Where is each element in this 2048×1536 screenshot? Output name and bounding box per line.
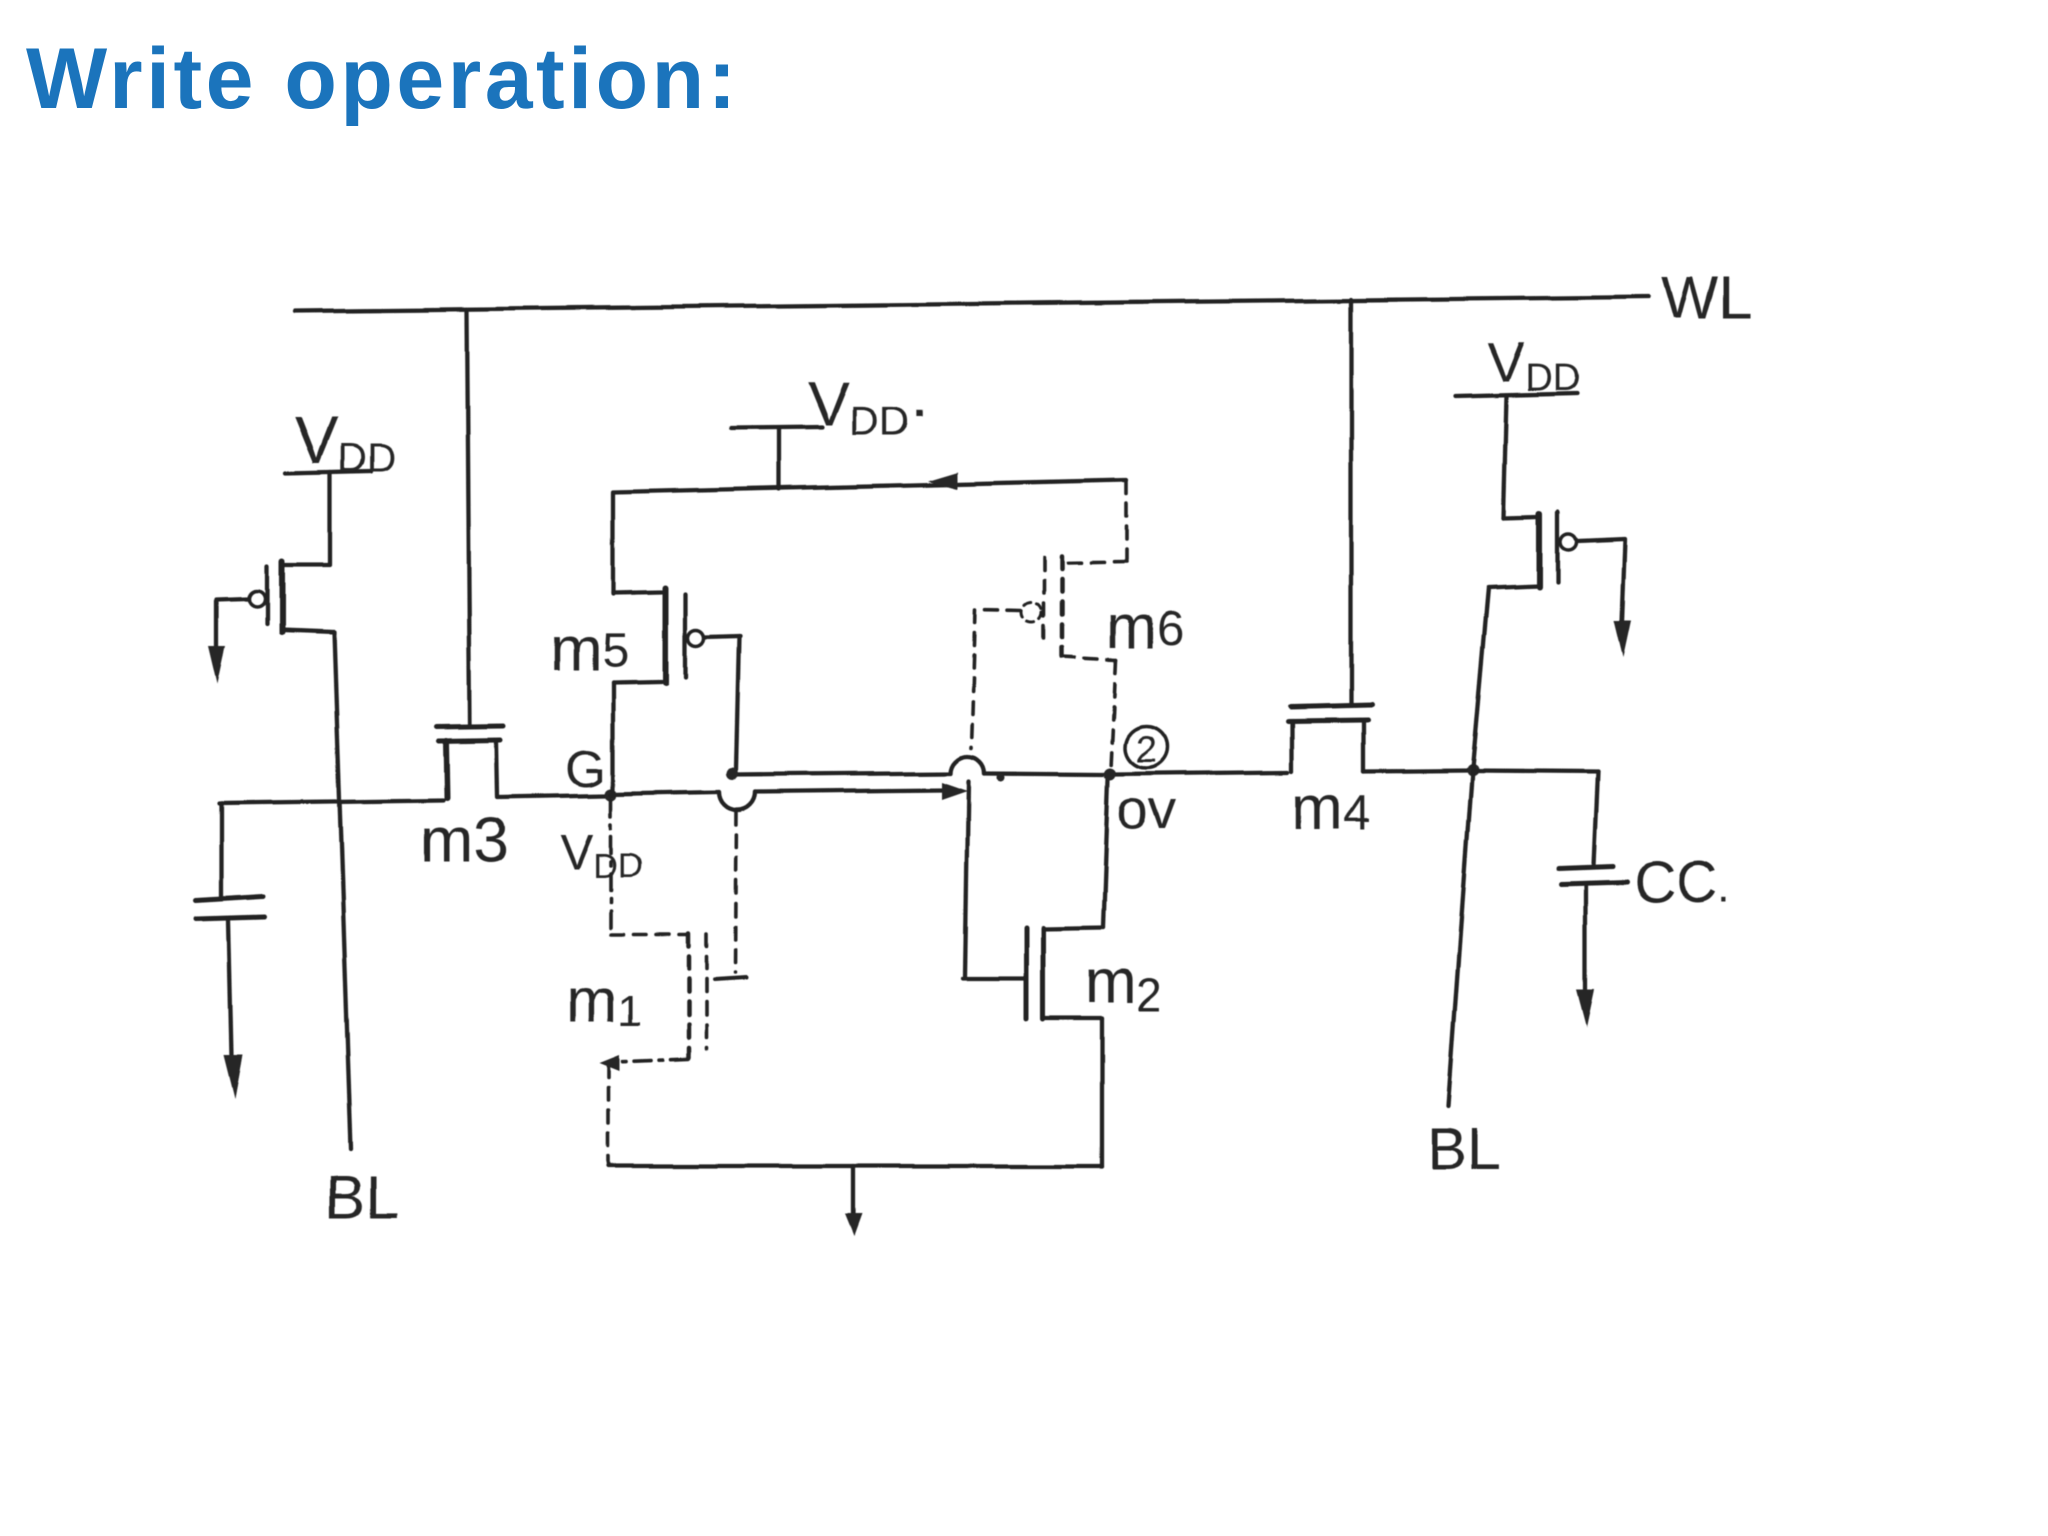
node label G: [566, 740, 606, 798]
label m6: [1106, 593, 1184, 662]
arrow below left capacitor: [224, 1054, 243, 1098]
capacitor CC: [1559, 772, 1627, 992]
svg-text:m2: m2: [1085, 947, 1162, 1020]
node label 2 (circled): [1125, 726, 1167, 768]
svg-text:BL: BL: [326, 1164, 399, 1231]
label m2: [1085, 947, 1162, 1020]
label OV: [1117, 778, 1176, 841]
svg-text:ov: ov: [1117, 778, 1176, 841]
label m3: [420, 804, 509, 876]
title: [26, 30, 740, 129]
junction dot right: [1466, 764, 1478, 776]
power VDD center (T bar): [732, 427, 822, 489]
node G junction dot: [605, 788, 617, 800]
junction dot M5 gate on upper wire: [726, 768, 738, 780]
transistor M5 (PMOS): [613, 493, 740, 790]
power VDD right (T bar): [1456, 393, 1577, 518]
arrowhead M1 drain: [599, 1055, 619, 1071]
capacitor left BL (plates): [196, 803, 265, 1056]
arrow below CC: [1577, 990, 1595, 1028]
node 2 junction dot: [1104, 768, 1116, 780]
small tick on upper wire: [997, 773, 1005, 781]
transistor M2: [1026, 779, 1108, 1166]
wire ground rail bottom: [608, 1164, 1102, 1168]
svg-text:m5: m5: [550, 615, 628, 684]
net label BL (left): [326, 1164, 399, 1231]
svg-text:WL: WL: [1662, 264, 1752, 331]
wire WL drop to M4 gate: [1349, 299, 1353, 705]
arrow on VDD rail: [927, 472, 957, 489]
label VDD right: [1488, 330, 1580, 399]
transistor M6 (PMOS, dashed): [971, 481, 1127, 768]
arrow on right PMOS gate: [1614, 620, 1631, 657]
transistor PMOS right (precharge): [1472, 512, 1625, 768]
arrowhead lower wire into M2 gate line: [941, 782, 967, 800]
wire M3 to node G: [498, 795, 606, 797]
label CC: [1634, 850, 1730, 915]
svg-text:m1: m1: [566, 967, 642, 1036]
net label WL: [1662, 264, 1752, 331]
svg-text:G: G: [566, 740, 606, 798]
svg-text:VDD: VDD: [560, 824, 642, 885]
power VDD left (T bar): [285, 471, 371, 565]
arrow on left PMOS gate: [209, 646, 226, 684]
wire M2 gate vertical: [963, 781, 1023, 979]
wire junction to CC: [1472, 771, 1598, 772]
wire WL rail: [295, 297, 1649, 311]
transistor M3: [436, 726, 504, 798]
wire left BL vertical (PMOS drain to BL): [334, 632, 351, 1150]
label VDD under node G: [560, 824, 642, 885]
svg-text:m6: m6: [1106, 593, 1184, 662]
svg-text:VDD·: VDD·: [808, 370, 931, 444]
label VDD left: [294, 403, 396, 480]
label m1: [566, 967, 642, 1036]
svg-text:VDD: VDD: [294, 403, 396, 480]
transistor PMOS left (precharge): [217, 562, 334, 648]
wire upper cross-couple (M5 gate to node 2) with hop: [731, 756, 1288, 775]
ground symbol: [851, 1166, 855, 1218]
net label BL (right): [1427, 1115, 1500, 1182]
svg-text:2: 2: [1135, 729, 1156, 771]
svg-text:BL: BL: [1427, 1115, 1500, 1182]
transistor M4: [1288, 705, 1372, 771]
svg-text:m4: m4: [1292, 774, 1370, 843]
label VDD center: [808, 370, 931, 444]
label m5: [550, 615, 628, 684]
svg-text:m3: m3: [420, 804, 509, 876]
wire BL-node horizontal (left): [219, 800, 443, 803]
wire VDD rail (M5 to M6): [613, 480, 1127, 492]
svg-text:CC.: CC.: [1634, 850, 1730, 915]
svg-text:VDD: VDD: [1488, 330, 1580, 399]
wire right BL vertical: [1448, 770, 1472, 1106]
transistor M1 (dashed): [608, 799, 746, 1164]
wire M4 to right junction: [1364, 770, 1469, 771]
wire WL drop to M3 gate: [467, 311, 470, 724]
wire lower cross-couple (node G to M2 gate) with hop: [611, 790, 945, 810]
label m4: [1292, 774, 1370, 843]
